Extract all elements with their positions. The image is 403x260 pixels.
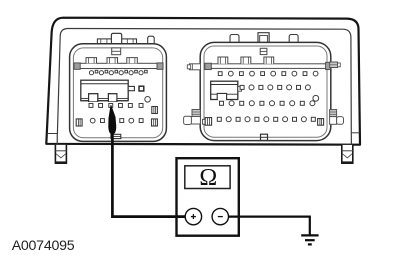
svg-text:Ω: Ω [199,165,217,191]
svg-text:A0074095: A0074095 [12,238,75,254]
